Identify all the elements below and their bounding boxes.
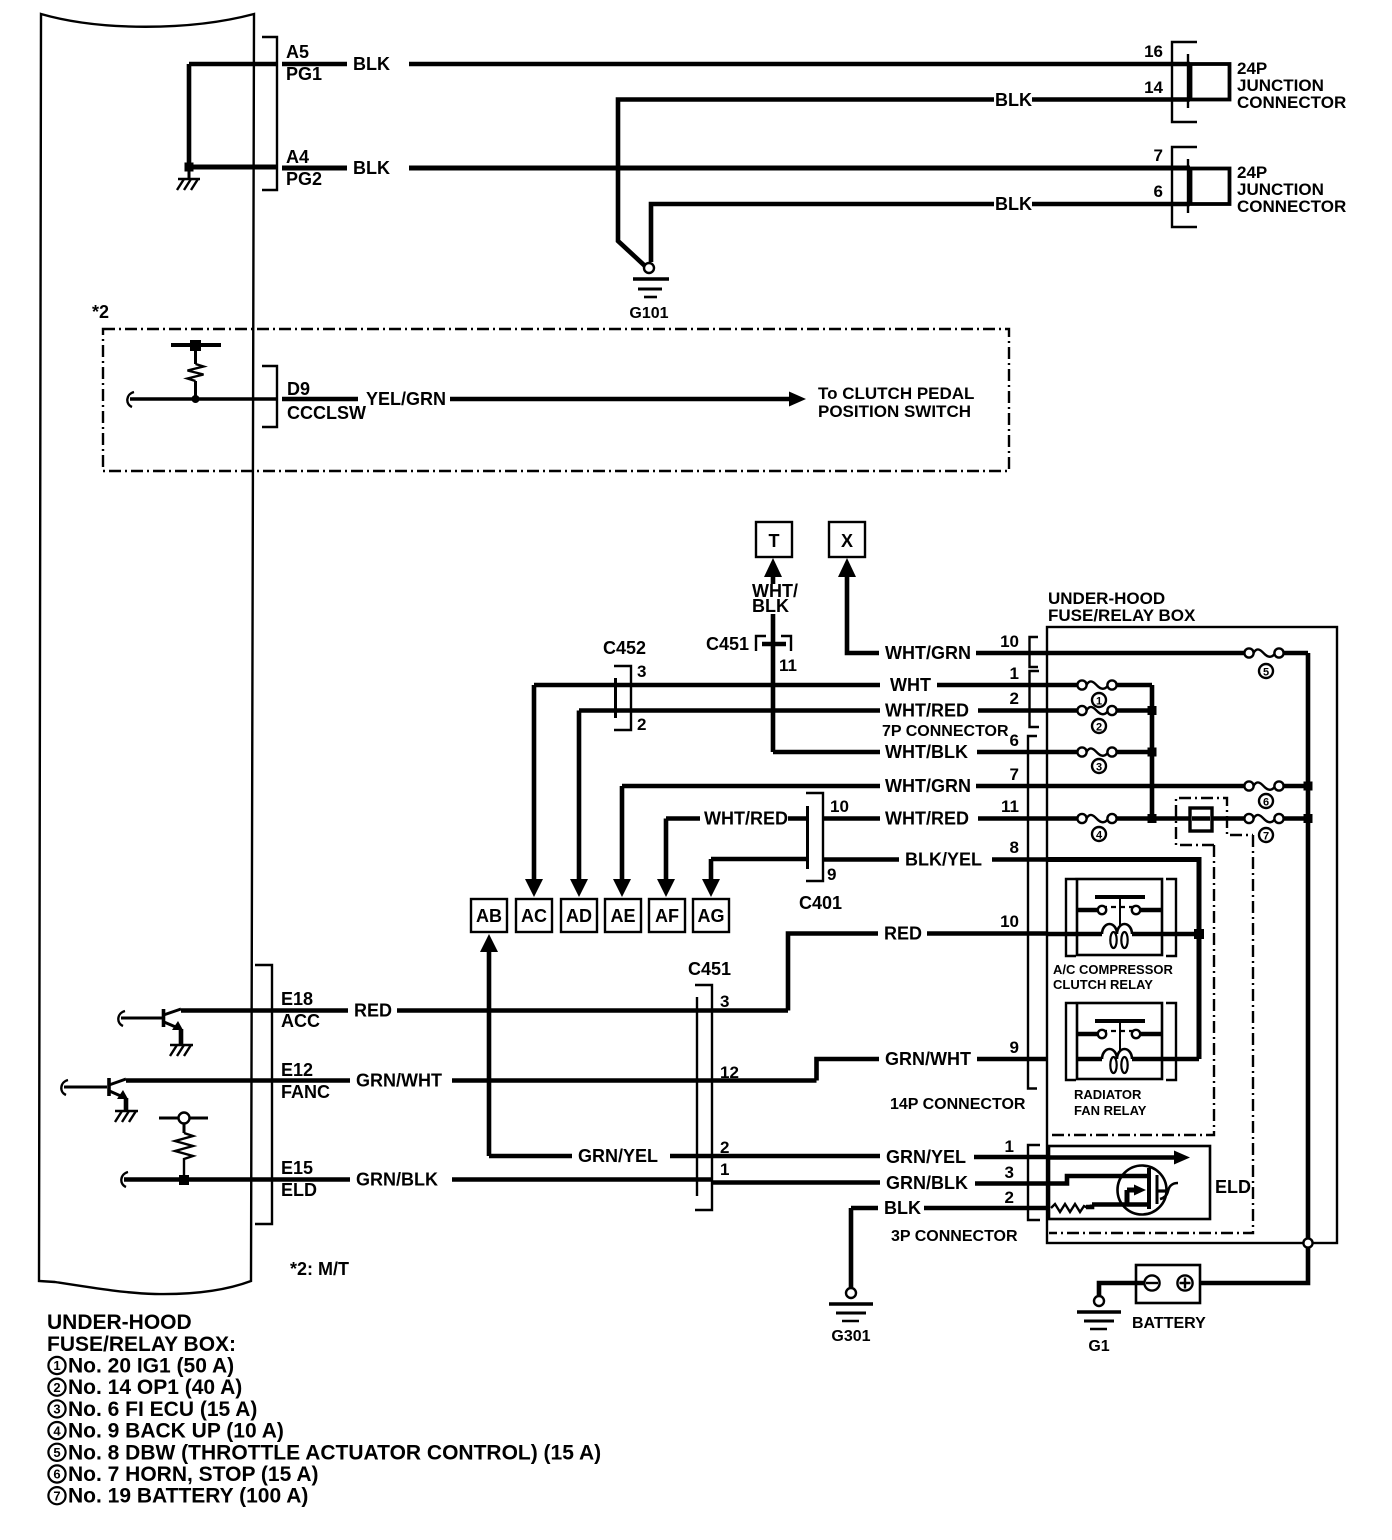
junction riser/pin6	[1148, 748, 1157, 757]
svg-text:7: 7	[1010, 765, 1019, 784]
wire diode to fuse 7	[1212, 816, 1246, 821]
resistor (pull-up in *2 box)	[188, 364, 204, 381]
svg-text:No. 8 DBW (THROTTLE ACTUATOR C: No. 8 DBW (THROTTLE ACTUATOR CONTROL) (1…	[68, 1441, 601, 1464]
fuse 1	[1077, 680, 1116, 689]
svg-text:ACC: ACC	[281, 1011, 320, 1031]
wire GRN/BLK (E15 to C451 pin 1)	[121, 1170, 712, 1190]
wire arrow into AC	[525, 685, 543, 897]
legend fuse 5	[48, 1441, 601, 1464]
svg-text:11: 11	[1001, 797, 1019, 816]
svg-text:3: 3	[1005, 1163, 1014, 1182]
wire fuse 7 to bus	[1284, 816, 1309, 821]
junction riser/pin11	[1148, 814, 1157, 823]
pin label E15/ELD	[281, 1158, 317, 1200]
wire arrow into AD	[570, 711, 588, 898]
svg-text:9: 9	[1010, 1038, 1019, 1057]
A/C compressor clutch relay	[1066, 879, 1199, 956]
pin 14 label	[1144, 78, 1163, 97]
connector C451 (in-line, vertical wire)	[706, 634, 797, 675]
svg-text:UNDER-HOOD: UNDER-HOOD	[47, 1311, 192, 1334]
label 14P CONNECTOR	[890, 1096, 1026, 1113]
svg-text:*2: *2	[92, 302, 109, 322]
wire pin 11 row	[1047, 816, 1079, 821]
svg-text:1: 1	[1010, 664, 1019, 683]
svg-text:G301: G301	[831, 1328, 870, 1345]
wire WHT/BLK (to box pin 6)	[773, 731, 1047, 762]
label RADIATOR FAN RELAY	[1074, 1087, 1147, 1118]
svg-text:GRN/WHT: GRN/WHT	[885, 1049, 971, 1069]
svg-text:FUSE/RELAY BOX: FUSE/RELAY BOX	[1048, 606, 1196, 625]
wire A4 internal	[189, 165, 277, 170]
svg-text:3: 3	[720, 992, 729, 1011]
svg-text:A/C COMPRESSOR: A/C COMPRESSOR	[1053, 962, 1174, 977]
svg-text:12: 12	[720, 1063, 739, 1082]
wire fuse 4 to diode unit	[1117, 816, 1191, 821]
svg-text:CCCLSW: CCCLSW	[287, 403, 366, 423]
wire arrow into AF	[657, 819, 675, 898]
battery bus exit circle	[1303, 1238, 1312, 1247]
connector C451 (lower, 14-pin pass-through)	[688, 959, 739, 1210]
svg-text:X: X	[841, 531, 853, 551]
svg-text:AE: AE	[610, 906, 635, 926]
svg-text:BLK: BLK	[995, 194, 1032, 214]
legend fuse 2	[48, 1376, 242, 1399]
fuse 6	[1244, 781, 1283, 790]
svg-text:3: 3	[1096, 762, 1102, 774]
svg-text:AC: AC	[521, 906, 547, 926]
dash-dot vertical (left)	[1049, 845, 1214, 1135]
svg-text:CONNECTOR: CONNECTOR	[1237, 197, 1346, 216]
node AF	[649, 899, 685, 932]
node AG	[693, 899, 729, 932]
svg-text:14P CONNECTOR: 14P CONNECTOR	[890, 1096, 1026, 1113]
wire WHT/RED (C452 pin 2 to box pin 2)	[579, 689, 1047, 721]
resistor (ELD input, BLK)	[1051, 1204, 1092, 1212]
label A/C COMPRESSOR CLUTCH RELAY	[1053, 962, 1174, 992]
legend fuse 6	[48, 1463, 318, 1486]
label 7P CONNECTOR	[882, 723, 1009, 740]
pin label D9/CCCLSW	[287, 379, 366, 423]
24P junction connector (upper)	[1172, 42, 1346, 122]
dash-dot enclosure around diode unit	[1176, 798, 1253, 845]
svg-text:10: 10	[830, 797, 849, 816]
svg-text:1: 1	[1005, 1137, 1014, 1156]
svg-text:2: 2	[637, 715, 646, 734]
svg-text:No. 19 BATTERY (100 A): No. 19 BATTERY (100 A)	[68, 1485, 308, 1508]
node AD	[561, 899, 597, 932]
wire BLK/YEL (C401 pin 9 to box pin 8)	[711, 838, 1047, 870]
svg-text:No. 9 BACK UP (10 A): No. 9 BACK UP (10 A)	[68, 1420, 284, 1443]
svg-text:1: 1	[53, 1358, 60, 1373]
box T	[756, 522, 792, 557]
ground G1	[1077, 1296, 1121, 1355]
wire BLK junction pin 14 to G101	[618, 90, 1190, 266]
wire pin 2 row	[1047, 708, 1079, 713]
wire RED (E18 to C451 pin 3)	[181, 1001, 788, 1021]
svg-text:WHT: WHT	[890, 675, 931, 695]
svg-text:PG2: PG2	[286, 169, 322, 189]
wire WHT/GRN (to box pin 7)	[622, 765, 1047, 796]
svg-text:C452: C452	[603, 638, 646, 658]
ground G301	[829, 1288, 873, 1345]
svg-text:10: 10	[1000, 912, 1019, 931]
transistor Q1 (ACC driver)	[118, 1009, 183, 1044]
svg-text:FUSE/RELAY BOX:: FUSE/RELAY BOX:	[47, 1333, 236, 1356]
box X	[829, 522, 865, 557]
ground (Q2 emitter)	[115, 1111, 138, 1122]
wire pin 1 row	[1047, 683, 1079, 688]
transistor Q2 (FANC driver)	[61, 1078, 128, 1110]
wire GRN/YEL arrow inside ELD	[1050, 1151, 1190, 1165]
wire WHT (C452 pin 3 to box pin 1)	[534, 664, 1047, 695]
note *2	[92, 302, 109, 322]
wire BLK junction pin 6 to G101	[651, 194, 1190, 262]
svg-text:GRN/YEL: GRN/YEL	[578, 1146, 658, 1166]
svg-text:14: 14	[1144, 78, 1163, 97]
svg-text:2: 2	[1010, 689, 1019, 708]
wire fuse 3 to riser	[1117, 750, 1153, 755]
svg-text:CONNECTOR: CONNECTOR	[1237, 93, 1346, 112]
svg-text:GRN/WHT: GRN/WHT	[356, 1071, 442, 1091]
svg-text:9: 9	[827, 865, 836, 884]
fuse 5	[1244, 648, 1283, 657]
svg-text:7: 7	[53, 1488, 60, 1503]
power rail symbol	[171, 340, 221, 364]
fuse id 7	[1259, 828, 1273, 843]
dash-dot vertical (right)	[1049, 835, 1253, 1233]
wire A4 BLK to junction connector pin 7	[282, 158, 1190, 178]
wire WHT/RED (C401 pin 10 to box pin 11)	[823, 797, 1047, 829]
svg-text:WHT/RED: WHT/RED	[704, 809, 788, 829]
ECU module outline (torn box)	[39, 14, 254, 1294]
svg-text:G101: G101	[629, 305, 668, 322]
svg-text:ELD: ELD	[281, 1180, 317, 1200]
fuse 3	[1077, 747, 1116, 756]
svg-text:RED: RED	[354, 1001, 392, 1021]
svg-text:6: 6	[1010, 731, 1019, 750]
svg-text:RADIATOR: RADIATOR	[1074, 1087, 1142, 1102]
wire A5 BLK to junction connector pin 16	[282, 54, 1190, 74]
diode unit (ELD option)	[1190, 808, 1212, 831]
24P junction connector (lower)	[1172, 147, 1346, 227]
wire GRN/WHT step to box pin 9	[817, 1038, 1048, 1081]
radiator fan relay	[1066, 1003, 1199, 1080]
svg-text:No. 20 IG1 (50 A): No. 20 IG1 (50 A)	[68, 1355, 234, 1378]
wire arrow into AE	[613, 786, 631, 897]
legend heading	[47, 1311, 236, 1356]
svg-text:YEL/GRN: YEL/GRN	[366, 389, 446, 409]
svg-text:2: 2	[1096, 722, 1102, 734]
svg-text:T: T	[769, 531, 780, 551]
svg-text:*2: M/T: *2: M/T	[290, 1259, 349, 1279]
fuse riser bus	[1150, 685, 1155, 819]
svg-text:8: 8	[1010, 838, 1019, 857]
svg-text:AG: AG	[698, 906, 725, 926]
svg-text:BLK: BLK	[752, 596, 789, 616]
svg-text:AB: AB	[476, 906, 502, 926]
svg-text:G1: G1	[1088, 1338, 1109, 1355]
pin 16 label	[1144, 42, 1163, 61]
svg-text:BLK: BLK	[353, 54, 390, 74]
svg-text:A5: A5	[286, 42, 309, 62]
svg-text:3P CONNECTOR: 3P CONNECTOR	[891, 1228, 1018, 1245]
svg-text:7P CONNECTOR: 7P CONNECTOR	[882, 723, 1009, 740]
wire GRN/BLK (C451 pin 1 row to 3P pin 3)	[712, 1163, 1050, 1193]
svg-text:GRN/YEL: GRN/YEL	[886, 1147, 966, 1167]
svg-text:5: 5	[53, 1445, 60, 1460]
label UNDER-HOOD FUSE/RELAY BOX heading	[1048, 589, 1196, 625]
wire fuse 2 to riser	[1117, 708, 1153, 713]
under-hood fuse/relay box outline	[1047, 627, 1337, 1243]
label ELD	[1215, 1177, 1251, 1197]
svg-text:RED: RED	[884, 924, 922, 944]
node AE	[605, 899, 641, 932]
bracket box 14P group	[1028, 736, 1037, 1089]
svg-text:BLK: BLK	[995, 90, 1032, 110]
connector C452	[603, 638, 646, 734]
svg-text:4: 4	[53, 1423, 61, 1438]
wire A5 internal	[189, 62, 277, 67]
resistor (ELD pull-up)	[159, 1113, 208, 1176]
ground G101	[629, 263, 669, 322]
wire X arrow from WHT/GRN pin 10	[838, 558, 1047, 663]
svg-text:WHT/GRN: WHT/GRN	[885, 643, 971, 663]
wire to D9	[127, 381, 277, 407]
wire pin 6 row	[1047, 750, 1079, 755]
pin label A5/PG1	[286, 42, 322, 84]
connector bracket A5/A4	[262, 37, 277, 190]
svg-text:BLK/YEL: BLK/YEL	[905, 850, 982, 870]
junction bus/pin7	[1304, 782, 1313, 791]
svg-text:WHT/RED: WHT/RED	[885, 809, 969, 829]
battery	[1132, 1265, 1206, 1332]
connector bracket D9	[262, 366, 277, 427]
svg-text:BATTERY: BATTERY	[1132, 1315, 1206, 1332]
svg-text:E15: E15	[281, 1158, 313, 1178]
wire pin 7 row to fuse 6	[1047, 784, 1246, 789]
legend fuse 1	[48, 1355, 234, 1378]
svg-text:AF: AF	[655, 906, 679, 926]
svg-text:C451: C451	[688, 959, 731, 979]
svg-text:6: 6	[1154, 182, 1163, 201]
pin label A4/PG2	[286, 147, 322, 189]
wire fuse 1 to riser	[1117, 683, 1153, 688]
fuse 7	[1244, 814, 1283, 823]
wire arrow into AG	[702, 859, 720, 897]
bracket 3P connector	[1028, 1145, 1040, 1220]
svg-text:6: 6	[53, 1467, 60, 1482]
svg-text:11: 11	[779, 656, 797, 675]
wire RED pin 10 into A/C relay coil	[1047, 932, 1077, 937]
dash-dot option box *2	[103, 329, 1009, 471]
wire GRN/WHT (E12 to C451 pin 12)	[126, 1071, 817, 1091]
svg-text:No. 6 FI ECU (15 A): No. 6 FI ECU (15 A)	[68, 1398, 257, 1421]
svg-text:C451: C451	[706, 634, 749, 654]
svg-text:4: 4	[1096, 830, 1103, 842]
fuse id 4	[1092, 827, 1106, 842]
svg-text:To CLUTCH PEDAL: To CLUTCH PEDAL	[818, 384, 974, 403]
wire fuse 6 to bus	[1284, 784, 1309, 789]
wire WHT/RED into C401 pin 10	[666, 809, 806, 829]
svg-text:1: 1	[1096, 696, 1102, 708]
junction riser/pin2	[1148, 706, 1157, 715]
svg-text:7: 7	[1263, 831, 1269, 843]
wire bus to battery positive	[1194, 1248, 1308, 1284]
svg-text:WHT/GRN: WHT/GRN	[885, 776, 971, 796]
wire battery negative to G1	[1099, 1283, 1144, 1296]
fuse id 2	[1092, 719, 1106, 734]
wire WHT/BLK up-arrow into T	[752, 558, 798, 642]
ground (ECU internal)	[177, 167, 200, 190]
svg-text:BLK: BLK	[353, 158, 390, 178]
svg-text:2: 2	[1005, 1188, 1014, 1207]
ELD sensor (hall element)	[1050, 1166, 1178, 1215]
svg-text:AD: AD	[566, 906, 592, 926]
connector C401	[799, 793, 849, 913]
svg-text:No. 14 OP1 (40 A): No. 14 OP1 (40 A)	[68, 1376, 242, 1399]
svg-text:A4: A4	[286, 147, 309, 167]
node AB	[471, 899, 507, 932]
svg-text:E12: E12	[281, 1060, 313, 1080]
junction internal ground node	[185, 163, 194, 172]
svg-text:CLUTCH RELAY: CLUTCH RELAY	[1053, 977, 1153, 992]
junction node on E15 wire	[179, 1175, 189, 1185]
fuse id 1	[1092, 693, 1106, 708]
legend fuse 7	[48, 1485, 308, 1508]
svg-text:FANC: FANC	[281, 1082, 330, 1102]
svg-text:WHT/RED: WHT/RED	[885, 701, 969, 721]
wire BLK (3P pin 2 to G301)	[851, 1188, 1050, 1288]
svg-text:2: 2	[53, 1380, 60, 1395]
wire RED riser to box pin 10	[788, 912, 1047, 1011]
pin 6 label	[1154, 182, 1163, 201]
wire internal vertical	[187, 64, 192, 167]
pin 7 label	[1154, 146, 1163, 165]
svg-text:No. 7 HORN, STOP (15 A): No. 7 HORN, STOP (15 A)	[68, 1463, 319, 1486]
svg-text:BLK: BLK	[884, 1198, 921, 1218]
connector bracket E (ECU lower)	[255, 965, 272, 1224]
junction bus/fuse7	[1304, 814, 1313, 823]
fuse 2	[1077, 706, 1116, 715]
bracket box pin 10	[1030, 637, 1039, 667]
battery bus vertical	[1306, 653, 1311, 1239]
note *2: M/T	[290, 1259, 349, 1279]
svg-text:5: 5	[1263, 667, 1269, 679]
legend fuse 4	[48, 1420, 283, 1443]
svg-text:3: 3	[637, 662, 646, 681]
svg-text:7: 7	[1154, 146, 1163, 165]
svg-text:6: 6	[1263, 797, 1269, 809]
wire YEL/GRN to clutch pedal position switch	[282, 384, 974, 421]
bracket box pins 1-2	[1030, 671, 1040, 727]
svg-text:ELD: ELD	[1215, 1177, 1251, 1197]
svg-text:WHT/BLK: WHT/BLK	[885, 742, 968, 762]
wire BLK/YEL feed bar to relays	[1047, 857, 1199, 1059]
svg-text:FAN RELAY: FAN RELAY	[1074, 1103, 1147, 1118]
ELD unit box	[1049, 1146, 1210, 1219]
wire fuse 5 to bus	[1284, 651, 1309, 656]
label 3P CONNECTOR	[891, 1228, 1018, 1245]
pin label E12/FANC	[281, 1060, 330, 1102]
fuse 4	[1077, 814, 1116, 823]
svg-text:GRN/BLK: GRN/BLK	[356, 1170, 438, 1190]
fuse id 5	[1259, 664, 1273, 679]
wire arrow up into AB from GRN/YEL	[480, 934, 498, 1156]
svg-text:1: 1	[720, 1160, 729, 1179]
junction relay feed / A/C coil	[1194, 929, 1204, 939]
svg-text:POSITION SWITCH: POSITION SWITCH	[818, 402, 971, 421]
svg-text:D9: D9	[287, 379, 310, 399]
wire pin 10 row + fuse 5 feed	[1047, 651, 1246, 656]
node AC	[516, 899, 552, 932]
svg-text:C401: C401	[799, 893, 842, 913]
wire GRN/YEL (C451 pin 2 row)	[489, 1137, 1050, 1167]
fuse id 6	[1259, 794, 1273, 809]
svg-text:E18: E18	[281, 989, 313, 1009]
svg-text:10: 10	[1000, 632, 1019, 651]
pin label E18/ACC	[281, 989, 320, 1031]
wire WHT/BLK down to pin 6 row	[771, 644, 776, 752]
ground (Q1 emitter)	[170, 1045, 193, 1056]
svg-text:16: 16	[1144, 42, 1163, 61]
svg-text:PG1: PG1	[286, 64, 322, 84]
fuse id 3	[1092, 759, 1106, 774]
svg-text:3: 3	[53, 1402, 60, 1417]
legend fuse 3	[48, 1398, 257, 1421]
svg-text:GRN/BLK: GRN/BLK	[886, 1173, 968, 1193]
